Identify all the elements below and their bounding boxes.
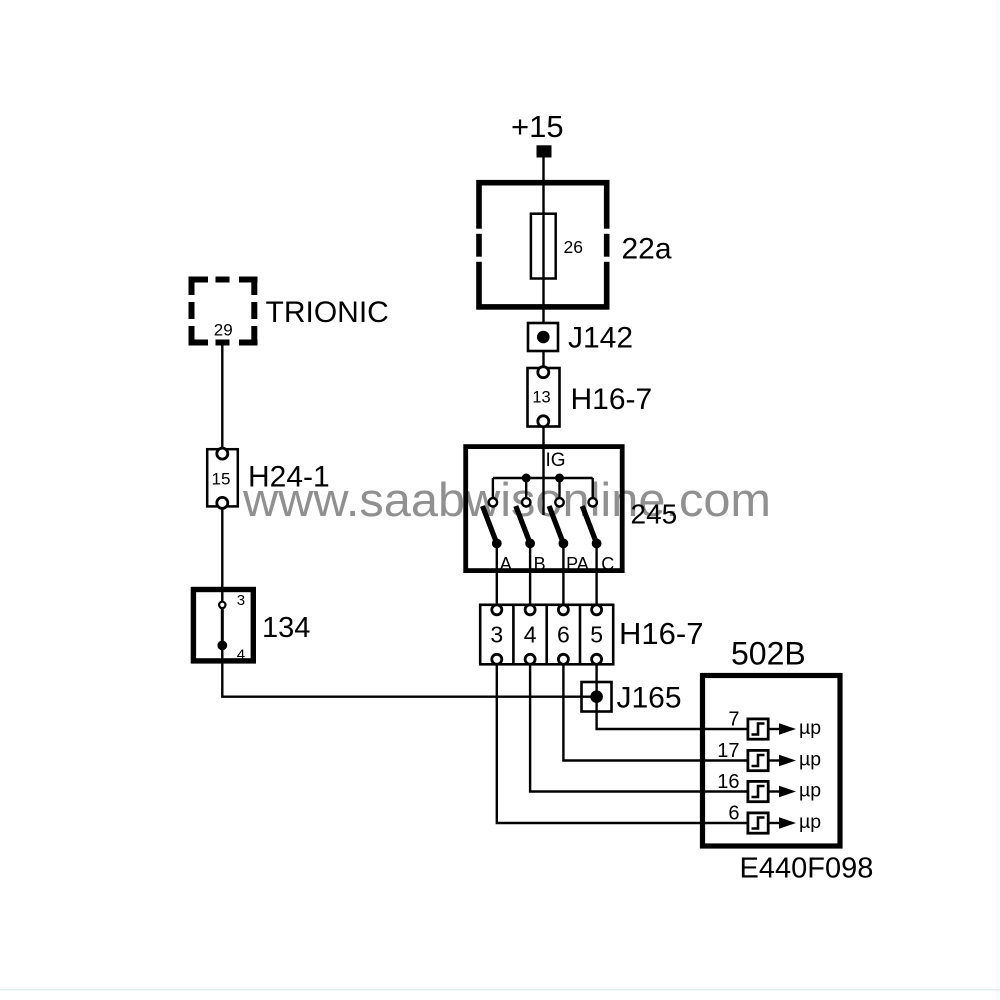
svg-text:TRIONIC: TRIONIC	[266, 296, 389, 329]
svg-text:5: 5	[590, 622, 603, 648]
svg-text:17: 17	[717, 740, 739, 762]
svg-text:502B: 502B	[731, 636, 806, 672]
svg-text:29: 29	[214, 321, 233, 340]
svg-text:µp: µp	[799, 780, 821, 802]
svg-text:15: 15	[212, 470, 231, 489]
svg-text:H24-1: H24-1	[248, 461, 330, 494]
svg-text:22a: 22a	[622, 233, 672, 266]
svg-text:26: 26	[564, 237, 583, 257]
svg-text:7: 7	[728, 709, 739, 731]
svg-text:4: 4	[237, 647, 245, 664]
svg-text:E440F098: E440F098	[740, 853, 874, 885]
svg-text:µp: µp	[799, 811, 821, 833]
svg-text:PA: PA	[566, 554, 589, 574]
svg-text:J165: J165	[617, 682, 682, 715]
svg-text:134: 134	[262, 612, 310, 644]
svg-text:13: 13	[532, 389, 550, 407]
svg-text:H16-7: H16-7	[571, 383, 653, 416]
svg-text:B: B	[534, 554, 546, 574]
svg-text:C: C	[601, 554, 614, 574]
svg-text:245: 245	[631, 499, 678, 530]
svg-text:+15: +15	[511, 109, 564, 144]
svg-text:3: 3	[490, 622, 503, 648]
svg-text:IG: IG	[546, 450, 566, 471]
svg-text:4: 4	[524, 622, 537, 648]
svg-text:J142: J142	[568, 322, 633, 355]
svg-text:µp: µp	[799, 717, 821, 739]
svg-text:µp: µp	[799, 749, 821, 771]
svg-text:A: A	[500, 554, 512, 574]
svg-text:3: 3	[237, 592, 245, 609]
svg-text:6: 6	[557, 622, 570, 648]
svg-text:6: 6	[728, 803, 739, 825]
svg-text:16: 16	[717, 771, 739, 793]
svg-text:H16-7: H16-7	[619, 616, 703, 651]
